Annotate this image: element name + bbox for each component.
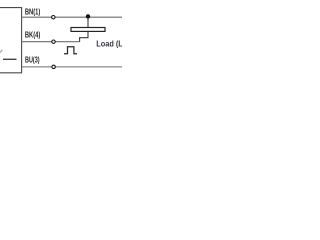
terminal circle BK(4) <box>52 40 55 43</box>
terminal circle BN(1) <box>52 16 55 19</box>
svg-text:BU(3): BU(3) <box>25 55 40 64</box>
sensor box (cut off at left edge) <box>0 8 22 73</box>
sensor internal dash <box>3 58 17 60</box>
junction dot on BN wire <box>86 14 90 18</box>
wire BU row <box>22 66 122 68</box>
terminal circle BU(3) <box>52 65 55 68</box>
pulse output icon <box>64 47 77 54</box>
wire BK row <box>22 41 80 43</box>
wire load vertical lower + jog to BK <box>80 31 88 41</box>
svg-text:Load (L: Load (L <box>96 40 122 49</box>
svg-text:BK(4): BK(4) <box>25 30 41 39</box>
sensor internal diagonal mark <box>0 50 2 53</box>
wire load vertical upper <box>87 16 89 27</box>
wire BN row <box>22 16 122 18</box>
svg-text:BN(1): BN(1) <box>25 7 41 16</box>
load resistor box <box>71 28 105 32</box>
